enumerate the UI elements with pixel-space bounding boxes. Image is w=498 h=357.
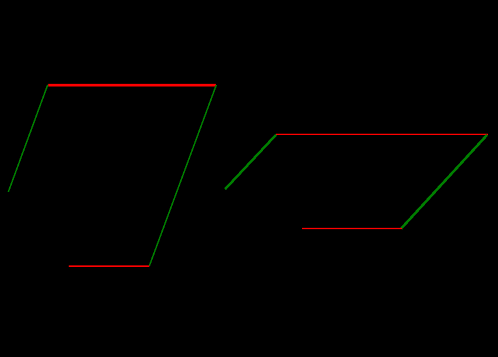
left parallelogram left edge (green, partial) <box>8 85 47 192</box>
left parallelogram top edge (red, thick) <box>48 84 216 87</box>
right parallelogram left edge (green, partial) <box>225 135 276 190</box>
left parallelogram bottom edge (red, thin) <box>69 265 150 267</box>
right parallelogram top edge (red, thin) <box>276 133 488 135</box>
left parallelogram right edge (green) <box>149 85 216 266</box>
right parallelogram bottom edge (red, thin) <box>302 228 402 230</box>
right parallelogram right edge (green) <box>401 135 487 229</box>
